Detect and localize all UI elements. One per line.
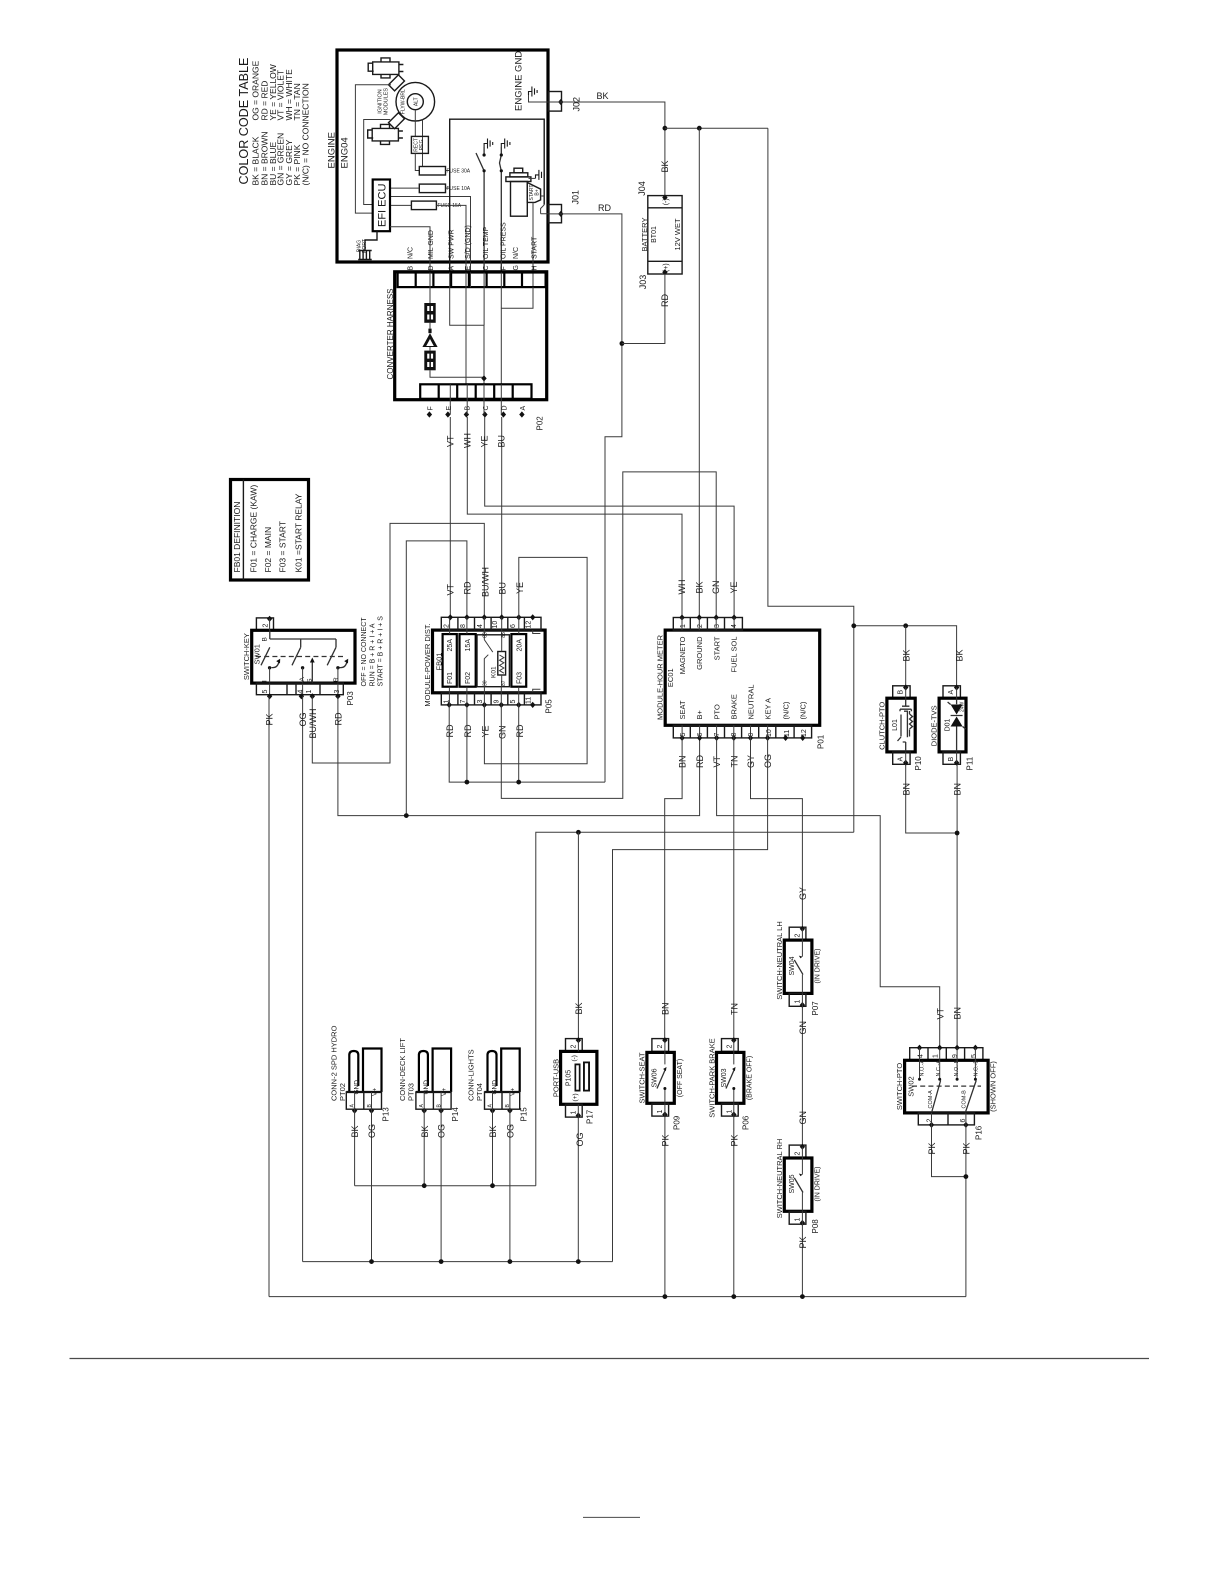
svg-text:D01: D01: [945, 718, 952, 731]
svg-text:BU: BU: [498, 582, 508, 595]
hour meter bottom strip: [673, 725, 811, 738]
starter B+ flag: [527, 183, 540, 203]
svg-text:START: START: [532, 236, 539, 259]
svg-text:85: 85: [501, 632, 507, 638]
svg-text:MAGNETO: MAGNETO: [678, 636, 687, 674]
svg-text:3: 3: [477, 700, 484, 704]
svg-text:B: B: [408, 266, 415, 271]
svg-text:BN: BN: [953, 1007, 963, 1020]
diode-tvs symbol: [956, 698, 958, 704]
footer page mark: [583, 1516, 640, 1518]
svg-text:NEUTRAL: NEUTRAL: [747, 684, 756, 719]
wire PK brake: [733, 1115, 735, 1297]
switch-key box SW01: [252, 630, 355, 683]
wire VT from P02 pin E: [449, 417, 451, 617]
svg-text:(+): (+): [572, 1093, 579, 1101]
svg-text:(N/C): (N/C): [782, 701, 791, 719]
svg-text:ENGINE: ENGINE: [327, 132, 338, 168]
clutch coil zigzag: [910, 711, 913, 737]
relay K01 box: [477, 635, 509, 687]
svg-text:PT04: PT04: [475, 1083, 484, 1101]
svg-text:BT01: BT01: [651, 226, 658, 243]
svg-text:GY: GY: [798, 887, 808, 900]
switch-park brake stub pin 1: [722, 1103, 739, 1116]
J02 arrow: [558, 99, 563, 105]
svg-text:CLUTCH-PTO: CLUTCH-PTO: [877, 702, 886, 750]
footer rule: [70, 1358, 1150, 1360]
pto COM-B blade: [965, 1081, 976, 1113]
svg-text:P05: P05: [545, 699, 554, 714]
svg-text:1: 1: [306, 690, 313, 694]
svg-text:FB01 DEFINITION: FB01 DEFINITION: [232, 502, 242, 573]
svg-text:E: E: [446, 406, 453, 411]
svg-text:BK: BK: [694, 581, 704, 593]
wire BK branch right: [665, 127, 768, 129]
junction RD B+ rail: [404, 813, 409, 818]
svg-text:25A: 25A: [447, 639, 454, 652]
switch-seat stub pin 1: [652, 1103, 669, 1116]
switch-seat stub pin 2: [652, 1039, 669, 1052]
svg-text:BN: BN: [678, 755, 688, 768]
svg-text:B: B: [898, 690, 905, 695]
FB01 definition table box: [231, 480, 309, 581]
fuse F01 box: [443, 634, 457, 687]
svg-text:START = B + R + I + S: START = B + R + I + S: [378, 616, 385, 687]
junctions PK rail: [663, 1294, 668, 1299]
svg-text:OG: OG: [575, 1132, 585, 1146]
wire OG hour meter pin 10: [613, 738, 768, 1262]
svg-text:SW06: SW06: [652, 1068, 659, 1087]
wire PK from key pin 5: [268, 696, 270, 1296]
svg-text:P07: P07: [811, 1001, 820, 1016]
engine connector strip (8 pins): [398, 273, 546, 288]
svg-text:EFI ECU: EFI ECU: [376, 184, 388, 227]
svg-text:F01 = CHARGE (KAW): F01 = CHARGE (KAW): [249, 485, 259, 573]
junction BK clutch: [903, 623, 908, 628]
switch-park brake box SW03: [717, 1052, 744, 1103]
svg-text:H: H: [532, 265, 539, 270]
svg-text:24W: 24W: [960, 701, 966, 712]
clutch-pto stub pin A: [893, 752, 910, 764]
svg-text:N.C.-A: N.C.-A: [936, 1060, 942, 1077]
svg-text:(-): (-): [571, 1055, 578, 1062]
wire OG from key pin 4: [302, 696, 304, 1261]
svg-text:BK: BK: [574, 1002, 584, 1014]
wire MIL GND (D) inside harness: [430, 287, 484, 377]
key switch mechanical dashed link: [256, 656, 344, 658]
fuse 10A leads: [390, 187, 450, 189]
wire RD from J01: [562, 214, 622, 782]
starter ground: [536, 170, 545, 180]
svg-text:A: A: [948, 690, 955, 695]
svg-text:1: 1: [680, 624, 687, 628]
wire YE power dist pin 3 to pin 6: [484, 557, 587, 763]
svg-text:(IN DRIVE): (IN DRIVE): [814, 1167, 821, 1202]
wire GN between neutral switches: [801, 1005, 803, 1147]
wire RD to battery: [622, 274, 665, 344]
svg-text:(SHOWN OFF): (SHOWN OFF): [989, 1061, 998, 1112]
ignition module 2: [389, 113, 405, 129]
svg-text:(OFF SEAT): (OFF SEAT): [677, 1059, 684, 1097]
svg-text:6: 6: [510, 624, 517, 628]
conn-lights symbol: [485, 1049, 520, 1093]
svg-text:N.C.-B: N.C.-B: [973, 1060, 979, 1077]
oil temp ground: [484, 139, 493, 149]
svg-text:COM-B: COM-B: [962, 1090, 968, 1109]
svg-text:BK: BK: [420, 1125, 430, 1137]
switch-pto top strip: [910, 1048, 983, 1061]
svg-text:V+: V+: [510, 1088, 517, 1096]
P03 connector strip: [256, 683, 343, 695]
svg-text:2: 2: [657, 1045, 664, 1049]
svg-text:86: 86: [482, 632, 488, 638]
svg-text:A: A: [520, 406, 527, 411]
fuse 30A box: [419, 167, 445, 176]
svg-text:9: 9: [952, 1054, 959, 1058]
svg-text:SWITCH-PARK BRAKE: SWITCH-PARK BRAKE: [707, 1038, 716, 1117]
fuse F03 box: [511, 634, 526, 687]
J02 connector stub: [549, 92, 562, 112]
wire TN hour meter pin 8 to park brake: [733, 738, 735, 1040]
FB01 definition table divider: [242, 480, 244, 581]
svg-text:B: B: [262, 637, 269, 641]
svg-text:TN: TN: [729, 1003, 739, 1015]
svg-text:3: 3: [334, 690, 341, 694]
conn-lights pin strip: [485, 1092, 520, 1109]
svg-text:RD: RD: [334, 712, 344, 725]
hour meter top arrows: [679, 614, 684, 620]
svg-text:BN: BN: [660, 1002, 670, 1015]
start wire to pin H: [532, 202, 534, 287]
wire PK seat: [664, 1115, 666, 1297]
svg-text:MODULE-HOUR METER: MODULE-HOUR METER: [656, 634, 665, 720]
brake switch blade: [733, 1052, 735, 1064]
svg-text:J01: J01: [570, 190, 580, 205]
wire RD power dist pin 1: [449, 705, 605, 782]
svg-text:RD: RD: [463, 724, 473, 737]
svg-text:CONVERTER HARNESS: CONVERTER HARNESS: [386, 289, 395, 380]
svg-text:RD: RD: [445, 724, 455, 737]
battery arrows: [662, 194, 667, 200]
svg-text:BN: BN: [901, 783, 911, 796]
svg-text:MODULES: MODULES: [384, 88, 390, 116]
svg-text:P10: P10: [914, 756, 923, 771]
svg-text:P11: P11: [966, 756, 975, 770]
svg-text:P17: P17: [586, 1109, 595, 1124]
PT03 arrows: [422, 1108, 427, 1114]
ignition coil 1: [368, 58, 403, 78]
switch-neutral LH stub pin 1: [789, 993, 806, 1006]
neutral RH blade: [801, 1158, 803, 1175]
svg-text:12V WET: 12V WET: [673, 218, 682, 251]
hour meter bottom arrows: [679, 735, 684, 741]
junction BK 1: [663, 126, 668, 131]
clutch-pto box L01: [887, 698, 915, 752]
svg-text:1: 1: [794, 1218, 801, 1222]
svg-text:ENG04: ENG04: [340, 137, 351, 168]
BK bottom rail: [355, 1185, 536, 1187]
wire OG PT04: [509, 1111, 511, 1262]
svg-text:J03: J03: [638, 275, 648, 290]
svg-text:RD: RD: [695, 755, 705, 768]
wire BK to hour meter pin 2: [698, 128, 700, 617]
seat switch blade: [664, 1052, 666, 1064]
wire BN diode to pto switch: [956, 764, 958, 1049]
EFI ECU box: [373, 180, 390, 232]
svg-text:B+: B+: [695, 709, 704, 719]
alt second output wire: [422, 120, 424, 167]
junction RD battery: [620, 341, 625, 346]
svg-text:2: 2: [926, 1119, 933, 1123]
svg-text:SWITCH-PTO: SWITCH-PTO: [895, 1063, 904, 1111]
svg-text:PK: PK: [661, 1134, 671, 1146]
pto COM-A blade: [932, 1081, 941, 1113]
wire BK rail to USB and conn: [536, 832, 854, 1185]
wire BK drop to clutch: [905, 626, 907, 688]
battery dividers: [648, 208, 682, 261]
switch-pto box SW02: [905, 1060, 989, 1113]
svg-text:OIL PRESS: OIL PRESS: [501, 222, 508, 259]
svg-text:BK: BK: [954, 649, 964, 661]
engine ground symbol: [529, 87, 538, 97]
svg-text:SWITCH-NEUTRAL RH: SWITCH-NEUTRAL RH: [775, 1139, 784, 1219]
svg-text:(N/C): (N/C): [799, 701, 808, 719]
svg-text:N.O.-A: N.O.-A: [920, 1059, 926, 1076]
wire OG PT03: [440, 1111, 442, 1262]
svg-text:COLOR CODE TABLE: COLOR CODE TABLE: [237, 58, 251, 185]
fuse 10A box: [419, 184, 445, 193]
svg-text:SWITCH-NEUTRAL LH: SWITCH-NEUTRAL LH: [775, 921, 784, 999]
key switch blade 2: [292, 647, 301, 665]
svg-text:FLYW-BRL: FLYW-BRL: [401, 89, 407, 114]
svg-text:G: G: [513, 265, 520, 270]
fuse 15A box: [411, 201, 436, 210]
wire BN clutch to junction: [906, 764, 957, 833]
wire RD power dist pin 5: [518, 705, 520, 782]
junction PK pto: [964, 1174, 969, 1179]
svg-text:5: 5: [510, 700, 517, 704]
svg-text:VT: VT: [445, 583, 455, 595]
svg-text:1: 1: [726, 1110, 733, 1114]
battery box: [648, 196, 682, 274]
svg-text:ALT: ALT: [413, 97, 419, 106]
svg-text:KEY A: KEY A: [764, 698, 773, 720]
pto contact stubs: [920, 1060, 976, 1079]
svg-text:P09: P09: [673, 1115, 682, 1130]
switch-neutral LH stub pin 2: [789, 927, 806, 940]
coil lead wire 1: [355, 85, 391, 213]
rect/reg to fuse wire: [415, 153, 419, 170]
svg-text:PT03: PT03: [406, 1083, 415, 1101]
svg-text:PT02: PT02: [338, 1083, 347, 1101]
svg-text:BN: BN: [953, 783, 963, 796]
svg-text:(+): (+): [663, 263, 670, 272]
MIL GND wire ecu to pin D: [390, 227, 430, 273]
svg-text:2: 2: [726, 1045, 733, 1049]
svg-text:(IN DRIVE): (IN DRIVE): [814, 949, 821, 984]
engine ENG04 box: [337, 50, 548, 262]
svg-text:B: B: [367, 1104, 373, 1108]
P02 arrows: [427, 411, 432, 417]
switch-pto bottom strip: [918, 1113, 974, 1125]
starter B+ to J01 wire: [541, 196, 549, 214]
svg-text:2: 2: [263, 624, 270, 628]
svg-text:GY: GY: [746, 755, 756, 768]
port-usb stub pin 1: [566, 1104, 583, 1117]
svg-text:12: 12: [526, 621, 533, 629]
svg-text:N/C: N/C: [513, 247, 520, 259]
svg-text:J04: J04: [637, 181, 647, 196]
wire BK right branch down: [768, 128, 854, 832]
svg-text:F: F: [427, 406, 434, 410]
key switch stub pin 2: [256, 618, 273, 630]
wire BU/WH from key pin 1: [312, 523, 484, 763]
svg-text:VT: VT: [935, 1007, 945, 1019]
wire START (H) inside harness: [501, 287, 533, 384]
svg-text:YE: YE: [729, 581, 739, 593]
svg-text:BK: BK: [901, 649, 911, 661]
svg-text:WH: WH: [677, 580, 687, 595]
P03 arrows: [267, 693, 272, 699]
svg-text:BK: BK: [350, 1125, 360, 1137]
power dist bottom arrows: [447, 702, 452, 708]
svg-text:OG: OG: [298, 712, 308, 726]
switch-neutral RH box SW05: [784, 1158, 812, 1211]
svg-text:11: 11: [526, 697, 533, 704]
key switch blade 3: [327, 647, 336, 665]
key switch bottom contacts: [268, 666, 271, 669]
svg-text:SW PWR: SW PWR: [449, 229, 456, 259]
pto bottom arrows: [929, 1122, 934, 1128]
svg-text:3: 3: [714, 624, 721, 628]
svg-text:OFF = NO CONNECT: OFF = NO CONNECT: [361, 617, 368, 687]
wire PK neutral RH: [801, 1223, 803, 1297]
svg-text:(BRAKE OFF): (BRAKE OFF): [746, 1056, 753, 1100]
svg-text:FUEL SOL: FUEL SOL: [729, 637, 738, 673]
wire GN power dist pin 9 to hour meter pin 3: [501, 472, 716, 799]
junction RD rail pin5: [516, 780, 521, 785]
svg-text:PK: PK: [729, 1134, 739, 1146]
svg-text:10: 10: [492, 621, 499, 629]
relay K01 coil: [498, 652, 506, 676]
wire YE from P02 pin C: [485, 417, 734, 618]
svg-text:BATTERY: BATTERY: [640, 218, 649, 252]
svg-text:87: 87: [501, 680, 507, 686]
wire BN hour meter pin 5 to seat switch: [665, 738, 682, 1040]
junction converter: [481, 375, 486, 381]
wire OIL TEMP (C) inside harness: [483, 287, 485, 325]
svg-text:BK: BK: [597, 91, 609, 101]
svg-text:VT: VT: [712, 755, 722, 767]
svg-text:TN = TAN: TN = TAN: [292, 83, 302, 120]
svg-text:YE: YE: [481, 725, 491, 737]
svg-text:A: A: [449, 266, 456, 271]
svg-text:RUN = B + R + I + A: RUN = B + R + I + A: [369, 623, 376, 686]
oil press ground: [501, 139, 510, 149]
power dist top arrows: [448, 614, 453, 620]
diode-tvs stub pin A: [943, 686, 960, 698]
P02 connector strip (6 pins): [420, 384, 531, 399]
svg-text:GN: GN: [798, 1021, 808, 1035]
svg-text:RD: RD: [598, 203, 611, 213]
wire GY hour meter pin 9 to neutral LH: [751, 738, 803, 929]
svg-text:BU: BU: [497, 435, 507, 448]
svg-text:BU/WH: BU/WH: [481, 567, 491, 597]
svg-text:BU/WH: BU/WH: [308, 709, 318, 739]
switch-park brake stub pin 2: [722, 1039, 739, 1052]
wire OG usb: [577, 1116, 579, 1262]
svg-text:8: 8: [460, 624, 467, 628]
svg-text:P03: P03: [346, 691, 355, 706]
wire BK PT03: [423, 1111, 425, 1186]
wire BK from J02: [562, 102, 665, 196]
relay K01 contact: [484, 630, 493, 687]
svg-text:OG: OG: [437, 1124, 447, 1138]
svg-text:RD: RD: [515, 724, 525, 737]
svg-text:9: 9: [493, 700, 500, 704]
svg-text:START: START: [712, 636, 721, 660]
svg-text:15A: 15A: [465, 639, 472, 652]
svg-text:PK: PK: [798, 1236, 808, 1248]
svg-text:R: R: [333, 677, 340, 682]
key switch S contact line: [311, 661, 313, 683]
wire S/D (E) inside harness: [465, 287, 467, 384]
svg-text:A: A: [898, 757, 905, 762]
svg-text:V+: V+: [372, 1088, 379, 1096]
svg-text:1: 1: [933, 1054, 940, 1058]
junction BN: [955, 831, 960, 836]
key switch rotation arrow 1: [272, 662, 280, 668]
switch-neutral RH stub pin 2: [789, 1145, 806, 1158]
svg-text:ENGINE GND: ENGINE GND: [514, 51, 525, 111]
svg-text:F: F: [501, 266, 508, 270]
OG bottom rail: [303, 1261, 613, 1263]
fuse 15A leads: [390, 197, 471, 273]
key switch blade 1: [261, 647, 270, 665]
svg-text:RD: RD: [660, 294, 670, 307]
oil press switch: [500, 147, 502, 273]
inner circuit box: [450, 119, 545, 272]
pto top arrows: [917, 1045, 922, 1051]
converter diode: [422, 329, 437, 347]
svg-text:MODULE-POWER DIST.: MODULE-POWER DIST.: [423, 623, 432, 706]
wire WH from P02 pin B: [467, 417, 682, 618]
engine ground wire to J02: [529, 95, 549, 102]
svg-text:F02 = MAIN: F02 = MAIN: [263, 527, 273, 573]
key switch pin lines to strip: [270, 668, 338, 696]
svg-text:RD: RD: [463, 581, 473, 594]
svg-text:1: 1: [794, 1000, 801, 1004]
switch-neutral LH box SW04: [784, 940, 812, 993]
svg-text:V+: V+: [441, 1088, 448, 1096]
svg-text:I: I: [262, 680, 269, 682]
diag port connector: [358, 231, 377, 259]
svg-text:E: E: [465, 266, 472, 271]
hour meter top strip: [673, 618, 742, 631]
wire OIL PRESS (F) inside harness: [500, 287, 502, 308]
svg-text:2: 2: [697, 624, 704, 628]
svg-text:K01 =START RELAY: K01 =START RELAY: [294, 493, 304, 572]
power dist top strip: [441, 617, 541, 630]
svg-text:OIL TEMP: OIL TEMP: [483, 226, 490, 259]
wire PK pto com-a: [932, 1125, 966, 1177]
svg-text:P105: P105: [566, 1070, 573, 1086]
alt to rect/reg wire: [414, 110, 416, 137]
key switch B feed bus: [270, 630, 336, 647]
converter harness box: [395, 272, 547, 400]
svg-text:BK: BK: [488, 1125, 498, 1137]
conn-deck lift pin strip: [416, 1092, 451, 1109]
